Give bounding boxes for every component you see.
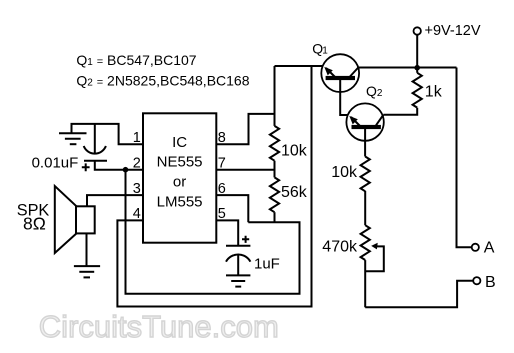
svg-text:4: 4 [133, 206, 141, 222]
svg-text:3: 3 [133, 181, 141, 197]
svg-text:B: B [485, 274, 496, 291]
svg-text:NE555: NE555 [157, 154, 203, 171]
svg-text:1: 1 [133, 130, 141, 146]
svg-text:+9V-12V: +9V-12V [425, 23, 481, 39]
svg-text:0.01uF: 0.01uF [32, 155, 79, 172]
svg-text:Q1 = BC547,BC107: Q1 = BC547,BC107 [76, 52, 196, 68]
svg-text:10k: 10k [331, 164, 358, 181]
svg-text:8Ω: 8Ω [23, 214, 46, 234]
svg-text:6: 6 [218, 181, 226, 197]
svg-text:470k: 470k [322, 239, 358, 256]
svg-text:7: 7 [218, 155, 226, 171]
svg-text:A: A [484, 240, 495, 257]
svg-text:56k: 56k [281, 184, 308, 201]
svg-text:Q2 = 2N5825,BC548,BC168: Q2 = 2N5825,BC548,BC168 [76, 73, 249, 89]
svg-text:5: 5 [218, 206, 226, 222]
svg-text:CircuitsTune.com: CircuitsTune.com [39, 309, 279, 344]
svg-text:2: 2 [133, 155, 141, 171]
svg-text:1uF: 1uF [254, 255, 280, 272]
svg-text:1k: 1k [425, 83, 443, 100]
svg-text:IC: IC [172, 134, 187, 151]
svg-text:10k: 10k [281, 143, 308, 160]
svg-text:or: or [173, 174, 186, 191]
svg-text:LM555: LM555 [157, 193, 203, 210]
svg-text:8: 8 [218, 130, 226, 146]
